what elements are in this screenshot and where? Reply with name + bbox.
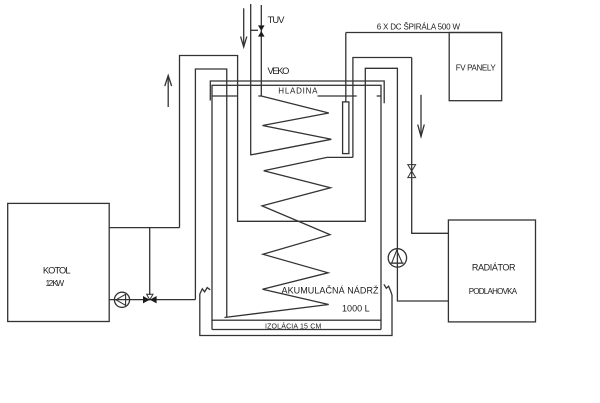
- insulation outer shell: [200, 294, 392, 336]
- tank body rectangle: [212, 85, 381, 320]
- radiator box: [448, 220, 535, 322]
- up arrow annotation (left pipes): [167, 76, 169, 108]
- coil 1: TUV spiral (top): [250, 96, 331, 155]
- svg-text:1000 L: 1000 L: [342, 303, 370, 313]
- TUV valve: [258, 25, 265, 31]
- tee from cold pipe to TUV valve: [251, 29, 258, 31]
- FV panels box: [449, 33, 502, 101]
- svg-text:AKUMULAČNÁ NÁDRŽ: AKUMULAČNÁ NÁDRŽ: [282, 286, 380, 296]
- svg-text:RADIÁTOR: RADIÁTOR: [472, 262, 516, 272]
- boiler KOTOL box: [8, 203, 110, 321]
- svg-text:12 KW: 12 KW: [46, 278, 65, 288]
- svg-text:VEKO: VEKO: [268, 66, 290, 76]
- down arrow annotation (right pipes): [420, 95, 422, 137]
- svg-text:HLADINA: HLADINA: [278, 86, 318, 95]
- tank second bottom line: [212, 329, 381, 331]
- electric heating element: [343, 102, 349, 154]
- wire: inner U pipe (valve up over into tank): [195, 69, 226, 317]
- insulation break squiggle left: [200, 288, 210, 294]
- insulation break squiggle right: [384, 284, 392, 295]
- wire: DC spirala line to FV panels: [346, 32, 502, 34]
- 3-way valve: [143, 296, 150, 303]
- water level line HLADINA: [213, 95, 238, 97]
- wire: boiler return pipe bottom (KOTOL to valve to inner riser): [109, 299, 195, 301]
- svg-text:FV PANELY: FV PANELY: [456, 64, 497, 73]
- pump P1 (boiler circuit): [114, 292, 129, 307]
- wire: DC wire 1 from spirala line to element: [345, 33, 347, 102]
- svg-text:TUV: TUV: [268, 15, 286, 25]
- tank lid (VEKO): [210, 81, 384, 103]
- wire: boiler supply pipe from KOTOL to left riser: [109, 227, 179, 229]
- wire: outer U pipe (boiler to tank dip tube to radiator): [180, 56, 449, 302]
- valve on radiator top pipe: [408, 165, 416, 171]
- wire: branch from top boiler pipe down to 3-way valve: [149, 228, 151, 295]
- svg-text:KOTOL: KOTOL: [43, 266, 71, 276]
- pump P2 (radiator circuit): [388, 249, 406, 267]
- svg-text:IZOLÁCIA 15 CM: IZOLÁCIA 15 CM: [265, 322, 321, 331]
- cold water inlet pipe: [250, 4, 252, 155]
- coil 2: main spiral: [225, 157, 353, 317]
- cold water flow arrow: [243, 8, 245, 47]
- TUV outlet pipe: [260, 5, 262, 96]
- wire: DC wire 2 down into tank to coil: [353, 58, 412, 158]
- wire: radiator top pipe with valve: [412, 58, 449, 234]
- svg-text:PODLAHOVKA: PODLAHOVKA: [469, 287, 518, 296]
- svg-text:6 X DC ŠPIRÁLA 500 W: 6 X DC ŠPIRÁLA 500 W: [377, 23, 461, 32]
